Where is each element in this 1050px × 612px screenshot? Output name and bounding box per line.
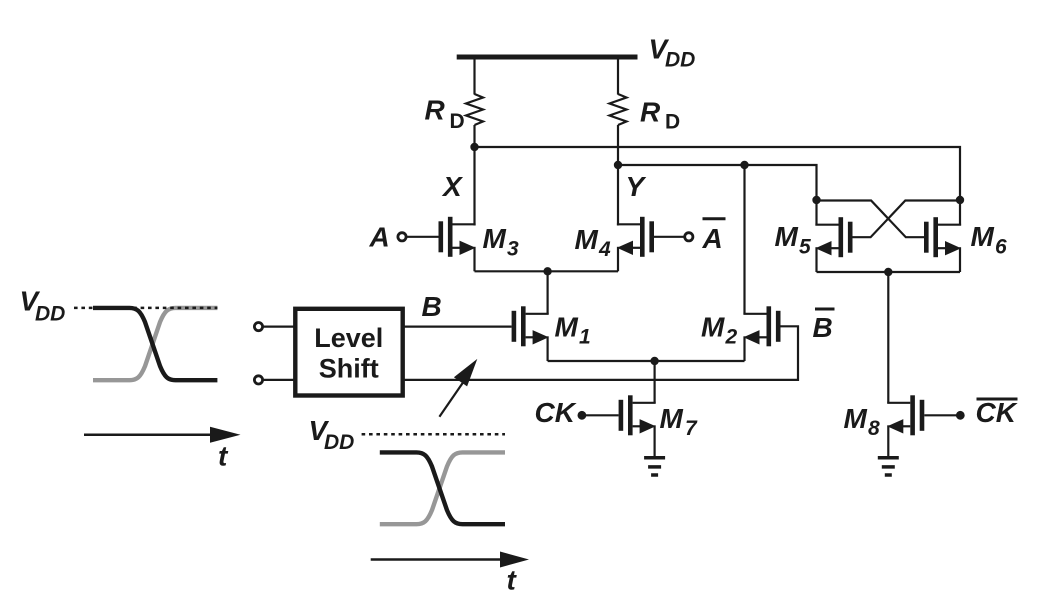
waveform 1 time axis arrow bbox=[84, 427, 241, 443]
label Abar bbox=[702, 219, 726, 254]
waveform 2 label VDD bbox=[309, 415, 355, 454]
transistor M1 bbox=[512, 306, 549, 346]
wire M5 gate to M6 drain (cross) bbox=[853, 201, 961, 238]
svg-text:X: X bbox=[441, 171, 464, 202]
resistor RD1 bbox=[466, 94, 483, 125]
input terminal Abar bbox=[685, 233, 693, 241]
wire CK to M7 gate bbox=[582, 414, 619, 416]
wire Abar to M4 gate bbox=[654, 236, 685, 238]
svg-text:7: 7 bbox=[685, 417, 698, 440]
label M8 bbox=[844, 403, 881, 440]
transistor M2 bbox=[743, 306, 780, 346]
node X junction bbox=[470, 143, 478, 151]
svg-text:3: 3 bbox=[507, 238, 519, 261]
wire M3 drain to node X bbox=[473, 147, 475, 226]
wire M3/M4 common source bbox=[475, 270, 619, 272]
node Y junction bbox=[614, 161, 622, 169]
terminal CKbar bbox=[956, 411, 965, 420]
wire M1/M2 common source bbox=[548, 360, 745, 362]
label Y bbox=[626, 171, 647, 202]
wire M1 source down bbox=[546, 336, 548, 361]
ground (M8) bbox=[878, 458, 899, 475]
wire M4 source down bbox=[617, 247, 619, 271]
node M5 drain bbox=[812, 196, 820, 204]
label M6 bbox=[971, 221, 1008, 259]
svg-text:R: R bbox=[640, 97, 661, 128]
wire M2 drain bbox=[743, 165, 745, 314]
svg-text:M: M bbox=[575, 224, 599, 255]
wire M5 source down bbox=[815, 247, 817, 272]
wire RD1 to node X bbox=[473, 125, 475, 147]
wire M4 drain to node Y bbox=[617, 165, 619, 226]
svg-text:6: 6 bbox=[995, 236, 1007, 259]
node M1 drain tap bbox=[543, 267, 551, 275]
wire node B to M1 gate bbox=[403, 326, 512, 328]
label M7 bbox=[660, 403, 699, 440]
label CKbar bbox=[976, 397, 1018, 428]
svg-text:5: 5 bbox=[799, 236, 811, 259]
wire input bottom to level shift bbox=[263, 379, 295, 381]
wire rail to RD1 bbox=[473, 57, 475, 95]
waveform 1 gray curve bbox=[93, 308, 217, 380]
label M3 bbox=[483, 223, 520, 261]
svg-text:DD: DD bbox=[665, 49, 695, 72]
svg-text:2: 2 bbox=[725, 326, 738, 349]
wire M6 source down bbox=[959, 247, 961, 272]
svg-text:Y: Y bbox=[626, 171, 647, 202]
svg-text:Level: Level bbox=[314, 323, 383, 353]
label B bbox=[422, 291, 442, 322]
label M2 bbox=[701, 312, 738, 349]
svg-text:A: A bbox=[702, 223, 723, 254]
input terminal (top left) bbox=[254, 323, 262, 331]
label M5 bbox=[775, 221, 812, 259]
svg-text:DD: DD bbox=[324, 431, 354, 454]
svg-text:M: M bbox=[775, 221, 799, 252]
label A bbox=[369, 222, 390, 253]
ground (M7) bbox=[644, 458, 665, 475]
level shift block bbox=[295, 309, 402, 396]
node M6 drain bbox=[956, 196, 964, 204]
svg-text:CK: CK bbox=[535, 397, 577, 428]
wire node X to M6 drain bbox=[475, 147, 961, 200]
label Bbar bbox=[813, 309, 835, 343]
waveform 2 dashed VDD level bbox=[362, 433, 505, 436]
svg-text:4: 4 bbox=[598, 238, 611, 261]
terminal CK bbox=[578, 411, 587, 420]
svg-text:R: R bbox=[425, 95, 446, 126]
transistor M6 bbox=[924, 217, 961, 257]
wire M8 gate to CKbar bbox=[924, 414, 960, 416]
svg-text:D: D bbox=[450, 110, 465, 133]
transistor M7 bbox=[619, 395, 656, 435]
wire M7 source down bbox=[653, 425, 655, 456]
label M1 bbox=[555, 312, 591, 349]
svg-text:M: M bbox=[971, 221, 995, 252]
waveform 2 label t bbox=[507, 565, 518, 596]
node M7 drain tap bbox=[650, 357, 658, 365]
input terminal (bottom left) bbox=[254, 376, 262, 384]
label VDD (top rail) bbox=[649, 34, 696, 72]
wire RD2 to node Y bbox=[617, 125, 619, 165]
label M4 bbox=[575, 224, 612, 261]
node M2 drain tap on Y line bbox=[740, 161, 748, 169]
wire M5/M6 common source bbox=[817, 271, 961, 273]
waveform 2 gray curve bbox=[380, 452, 505, 524]
wire M6 drain stub up bbox=[959, 200, 961, 226]
wire M8 source down bbox=[887, 425, 889, 456]
waveform 1 dashed VDD level bbox=[74, 307, 217, 310]
wire M5 drain stub up bbox=[815, 200, 817, 226]
waveform 1 black curve bbox=[93, 308, 217, 380]
svg-text:DD: DD bbox=[35, 303, 65, 326]
wire A to M3 gate bbox=[407, 236, 439, 238]
svg-text:D: D bbox=[665, 111, 680, 134]
annotation arrow (level shifted clock) bbox=[439, 359, 477, 417]
svg-text:M: M bbox=[483, 223, 507, 254]
svg-text:Shift: Shift bbox=[319, 354, 379, 384]
svg-text:1: 1 bbox=[579, 326, 591, 349]
wire node Y to M5 drain bbox=[618, 165, 817, 200]
transistor M5 bbox=[815, 217, 852, 257]
wire input top to level shift bbox=[263, 326, 295, 328]
transistor M4 bbox=[617, 217, 654, 257]
label RD1 bbox=[425, 95, 465, 134]
VDD rail bbox=[457, 55, 638, 60]
svg-text:8: 8 bbox=[868, 417, 880, 440]
svg-text:M: M bbox=[555, 312, 579, 343]
svg-text:A: A bbox=[369, 222, 390, 253]
svg-text:M: M bbox=[660, 403, 684, 434]
resistor RD2 bbox=[610, 94, 627, 125]
wire M2 source down bbox=[743, 336, 745, 361]
wire node Bbar to M2 gate bbox=[403, 326, 798, 380]
wire M6 gate to M5 drain (cross) bbox=[817, 201, 925, 238]
waveform 2 time axis arrow bbox=[371, 552, 529, 568]
waveform 1 label t bbox=[218, 441, 229, 472]
wire M7 drain bbox=[653, 361, 655, 403]
label CK bbox=[535, 397, 577, 428]
label RD2 bbox=[640, 97, 680, 134]
input terminal A bbox=[398, 233, 406, 241]
wire M3 source down bbox=[473, 247, 475, 271]
wire M1 drain bbox=[546, 271, 548, 314]
transistor M3 bbox=[439, 217, 476, 257]
svg-text:B: B bbox=[813, 312, 833, 343]
svg-text:B: B bbox=[422, 291, 442, 322]
transistor M8 bbox=[887, 395, 924, 435]
waveform 2 black curve bbox=[380, 452, 505, 524]
wire M8 drain bbox=[887, 272, 889, 403]
svg-text:M: M bbox=[701, 312, 725, 343]
wire rail to RD2 bbox=[617, 57, 619, 95]
label X bbox=[441, 171, 464, 202]
svg-text:M: M bbox=[844, 403, 868, 434]
waveform 1 label VDD bbox=[20, 286, 66, 326]
node M8 drain tap bbox=[884, 268, 892, 276]
svg-text:CK: CK bbox=[976, 397, 1018, 428]
